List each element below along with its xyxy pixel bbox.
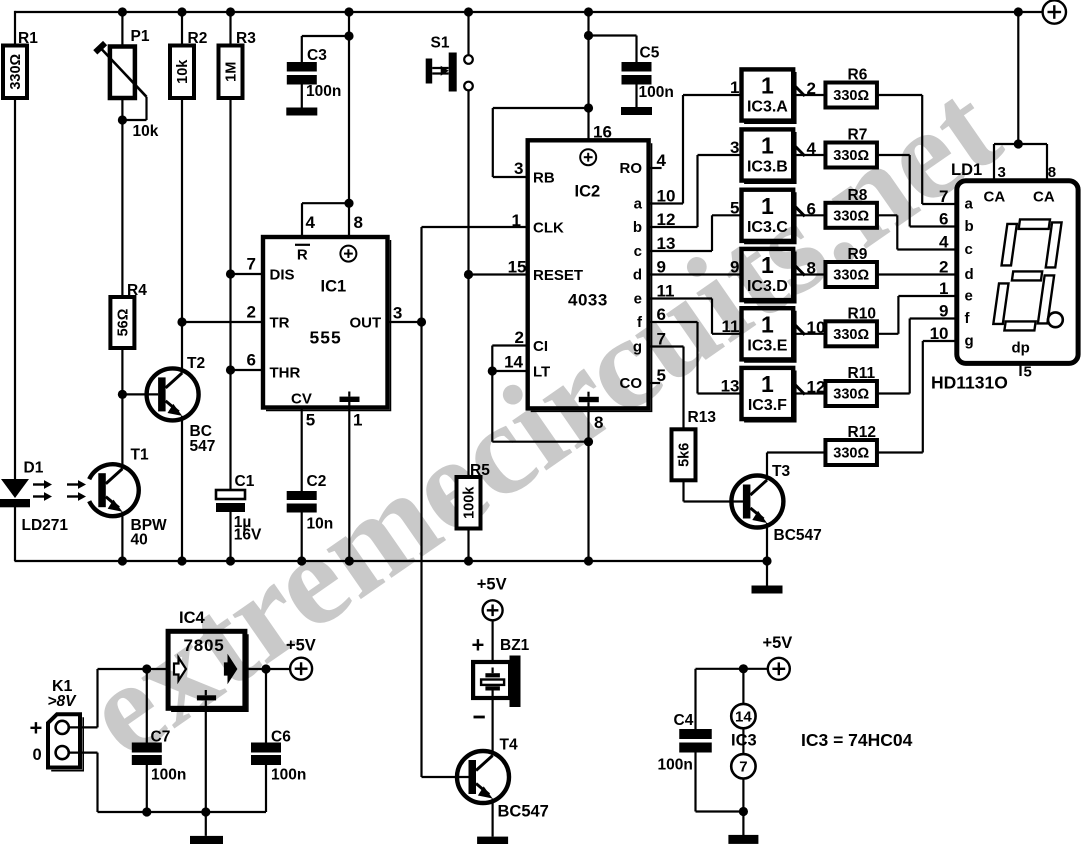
svg-text:12: 12 (807, 378, 826, 397)
svg-text:5k6: 5k6 (677, 443, 693, 467)
svg-text:13: 13 (721, 377, 740, 396)
svg-text:100n: 100n (271, 767, 306, 784)
svg-text:c: c (965, 241, 973, 258)
svg-text:R10: R10 (848, 305, 876, 322)
svg-text:2: 2 (939, 258, 948, 277)
svg-text:>8V: >8V (48, 693, 78, 710)
svg-text:C3: C3 (307, 47, 327, 64)
svg-text:R12: R12 (848, 424, 876, 441)
svg-text:2: 2 (247, 303, 256, 322)
svg-text:10k: 10k (133, 123, 159, 140)
svg-text:1: 1 (512, 211, 521, 230)
svg-text:CA: CA (984, 189, 1006, 206)
svg-text:CO: CO (620, 375, 643, 392)
svg-text:BC547: BC547 (498, 803, 549, 821)
svg-text:7: 7 (247, 255, 256, 274)
svg-text:R11: R11 (848, 365, 876, 382)
svg-text:330Ω: 330Ω (833, 446, 869, 462)
svg-text:RESET: RESET (533, 267, 583, 284)
svg-text:4: 4 (306, 213, 316, 232)
svg-text:8: 8 (807, 259, 816, 278)
svg-text:BC547: BC547 (774, 527, 822, 544)
svg-text:10: 10 (807, 318, 826, 337)
svg-text:7: 7 (739, 759, 747, 776)
svg-text:2: 2 (807, 79, 816, 98)
svg-text:IC3.B: IC3.B (747, 159, 788, 176)
svg-text:4: 4 (807, 139, 817, 158)
svg-text:6: 6 (247, 351, 256, 370)
svg-text:10k: 10k (175, 59, 191, 84)
svg-text:4: 4 (939, 233, 949, 252)
svg-text:15: 15 (508, 258, 527, 277)
svg-text:4033: 4033 (568, 291, 608, 310)
svg-text:R3: R3 (236, 30, 256, 47)
svg-text:C4: C4 (674, 712, 694, 729)
svg-text:R1: R1 (18, 30, 38, 47)
svg-text:extremecircuits.net: extremecircuits.net (60, 55, 1024, 785)
svg-text:100k: 100k (462, 486, 478, 519)
svg-text:3: 3 (393, 304, 402, 323)
svg-text:9: 9 (939, 302, 948, 321)
svg-text:IC3.F: IC3.F (748, 397, 787, 414)
svg-text:330Ω: 330Ω (833, 387, 869, 403)
svg-text:1: 1 (761, 193, 774, 219)
svg-text:555: 555 (310, 328, 342, 348)
svg-text:e: e (634, 290, 642, 307)
svg-text:f: f (965, 310, 971, 327)
svg-text:R8: R8 (848, 187, 868, 204)
svg-text:LD271: LD271 (22, 517, 69, 534)
svg-text:16V: 16V (234, 527, 262, 544)
svg-text:8: 8 (354, 213, 363, 232)
svg-text:R7: R7 (848, 127, 868, 144)
svg-text:IC3.E: IC3.E (747, 337, 787, 354)
svg-text:R13: R13 (688, 409, 717, 426)
svg-text:5: 5 (1024, 364, 1032, 381)
svg-text:100n: 100n (639, 84, 674, 101)
svg-text:330Ω: 330Ω (833, 209, 869, 225)
svg-text:c: c (634, 243, 642, 260)
svg-text:6: 6 (939, 210, 948, 229)
svg-text:100n: 100n (151, 767, 186, 784)
svg-text:IC3.C: IC3.C (747, 219, 788, 236)
svg-text:OUT: OUT (350, 315, 382, 332)
svg-text:T4: T4 (500, 737, 518, 754)
svg-text:R2: R2 (188, 30, 208, 47)
svg-text:8: 8 (594, 413, 603, 432)
svg-text:+: + (472, 633, 485, 658)
svg-text:100n: 100n (658, 757, 693, 774)
svg-text:T1: T1 (131, 447, 149, 464)
svg-text:1: 1 (761, 311, 774, 337)
svg-text:330Ω: 330Ω (833, 268, 869, 284)
svg-text:b: b (965, 218, 974, 235)
svg-text:7: 7 (939, 187, 948, 206)
svg-text:DIS: DIS (270, 267, 295, 284)
svg-text:330Ω: 330Ω (833, 148, 869, 164)
svg-text:C1: C1 (235, 473, 255, 490)
svg-text:7805: 7805 (184, 636, 225, 655)
svg-text:1: 1 (761, 73, 774, 99)
svg-text:IC2: IC2 (575, 183, 601, 201)
svg-text:40: 40 (131, 532, 148, 549)
svg-text:d: d (633, 266, 642, 283)
svg-text:6: 6 (807, 199, 816, 218)
svg-text:5: 5 (730, 198, 739, 217)
svg-text:9: 9 (730, 258, 739, 277)
svg-text:g: g (633, 338, 642, 355)
svg-text:T3: T3 (772, 463, 790, 480)
svg-text:+5V: +5V (763, 634, 793, 652)
svg-text:R5: R5 (470, 462, 490, 479)
svg-text:+5V: +5V (477, 576, 507, 594)
svg-text:R6: R6 (848, 67, 868, 84)
svg-text:IC1: IC1 (321, 278, 347, 296)
svg-text:C7: C7 (151, 729, 171, 746)
svg-text:330Ω: 330Ω (833, 327, 869, 343)
svg-text:IC3.A: IC3.A (747, 99, 788, 116)
svg-text:LT: LT (533, 364, 550, 381)
svg-text:14: 14 (735, 708, 752, 725)
svg-text:IC3: IC3 (731, 732, 757, 750)
svg-text:a: a (634, 195, 643, 212)
svg-text:1M: 1M (224, 62, 240, 82)
svg-text:10: 10 (930, 324, 949, 343)
svg-text:+: + (30, 716, 43, 741)
svg-text:S1: S1 (431, 35, 450, 52)
svg-text:16: 16 (593, 123, 612, 142)
svg-text:1: 1 (761, 371, 774, 397)
svg-text:TR: TR (270, 315, 290, 332)
svg-text:100n: 100n (306, 83, 341, 100)
svg-text:C5: C5 (640, 45, 660, 62)
svg-text:dp: dp (1012, 340, 1030, 357)
svg-text:3: 3 (514, 159, 523, 178)
svg-text:CA: CA (1033, 189, 1055, 206)
svg-text:C2: C2 (307, 473, 327, 490)
svg-text:R4: R4 (127, 282, 147, 299)
svg-text:1: 1 (761, 133, 774, 159)
svg-text:LD1: LD1 (951, 161, 982, 179)
svg-text:D1: D1 (24, 460, 44, 477)
svg-text:R9: R9 (848, 246, 868, 263)
svg-text:3: 3 (730, 138, 739, 157)
svg-text:e: e (965, 288, 973, 305)
svg-text:8: 8 (1048, 164, 1056, 181)
svg-text:CLK: CLK (533, 220, 564, 237)
svg-text:5: 5 (306, 411, 315, 430)
svg-text:2: 2 (515, 328, 524, 347)
svg-text:IC4: IC4 (179, 609, 206, 627)
svg-text:d: d (965, 266, 974, 283)
svg-text:1: 1 (353, 411, 362, 430)
svg-text:1: 1 (761, 252, 774, 278)
svg-text:14: 14 (504, 353, 523, 372)
svg-text:a: a (965, 196, 974, 213)
svg-text:THR: THR (270, 365, 301, 382)
svg-text:1: 1 (730, 78, 739, 97)
svg-text:g: g (965, 333, 974, 350)
svg-text:RO: RO (620, 160, 643, 177)
svg-text:547: 547 (190, 438, 216, 455)
svg-text:330Ω: 330Ω (833, 88, 869, 104)
svg-text:BZ1: BZ1 (500, 637, 530, 654)
svg-text:0: 0 (33, 746, 42, 764)
svg-text:b: b (633, 219, 642, 236)
svg-text:IC3 = 74HC04: IC3 = 74HC04 (801, 730, 913, 750)
svg-text:10n: 10n (307, 516, 334, 533)
svg-text:HD1131O: HD1131O (931, 373, 1008, 393)
svg-text:+5V: +5V (286, 637, 316, 655)
svg-text:C6: C6 (271, 729, 291, 746)
svg-text:11: 11 (722, 317, 740, 336)
svg-text:IC3.D: IC3.D (747, 278, 788, 295)
svg-text:56Ω: 56Ω (115, 308, 131, 336)
svg-text:1: 1 (939, 279, 948, 298)
svg-text:330Ω: 330Ω (8, 53, 24, 89)
svg-text:3: 3 (998, 164, 1006, 181)
svg-text:CI: CI (533, 338, 548, 355)
svg-text:P1: P1 (131, 28, 150, 45)
svg-text:R: R (297, 247, 308, 264)
svg-text:CV: CV (291, 391, 312, 408)
svg-text:T2: T2 (187, 355, 205, 372)
svg-text:RB: RB (533, 170, 555, 187)
